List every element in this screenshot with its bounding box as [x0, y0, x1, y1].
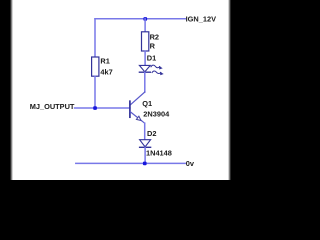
svg-text:D1: D1 — [147, 53, 156, 62]
transistor Q1 base bar — [129, 101, 131, 117]
wire emitter to D2 — [144, 123, 146, 140]
wire top rail — [95, 18, 185, 20]
wire MJ_OUTPUT base — [75, 107, 130, 109]
wire R1 riser — [94, 19, 96, 57]
transistor Q1 emitter arrowhead — [136, 116, 141, 120]
svg-text:4k7: 4k7 — [100, 68, 112, 77]
svg-text:Q1: Q1 — [142, 99, 152, 108]
wire bottom rail — [76, 162, 185, 164]
wire R2 drop — [144, 19, 146, 32]
LED arrow 2 — [152, 71, 161, 74]
svg-text:1N4148: 1N4148 — [146, 148, 172, 157]
svg-text:R1: R1 — [100, 57, 109, 66]
resistor R1 — [92, 57, 99, 76]
LED arrow 1 — [151, 65, 160, 68]
transistor Q1 collector lead — [130, 92, 144, 105]
wire D1 to collector — [144, 72, 146, 92]
node 0v junction — [143, 162, 147, 166]
resistor R2 — [142, 32, 149, 51]
diode D1 LED — [139, 65, 150, 71]
transistor Q1 emitter lead — [130, 112, 144, 123]
svg-text:R2: R2 — [150, 32, 159, 41]
svg-text:IGN_12V: IGN_12V — [186, 14, 216, 23]
wire D2 to ground rail — [144, 147, 146, 163]
svg-text:2N3904: 2N3904 — [143, 109, 170, 118]
wire R1 bottom — [94, 76, 96, 108]
node MJ_OUTPUT junction — [93, 106, 97, 110]
svg-text:R: R — [150, 42, 156, 51]
diode D2 — [140, 140, 151, 147]
svg-text:0v: 0v — [186, 159, 195, 168]
svg-text:MJ_OUTPUT: MJ_OUTPUT — [30, 102, 75, 111]
svg-text:D2: D2 — [147, 129, 156, 138]
wire R2 to D1 — [144, 51, 146, 65]
node IGN_12V junction — [143, 17, 147, 21]
